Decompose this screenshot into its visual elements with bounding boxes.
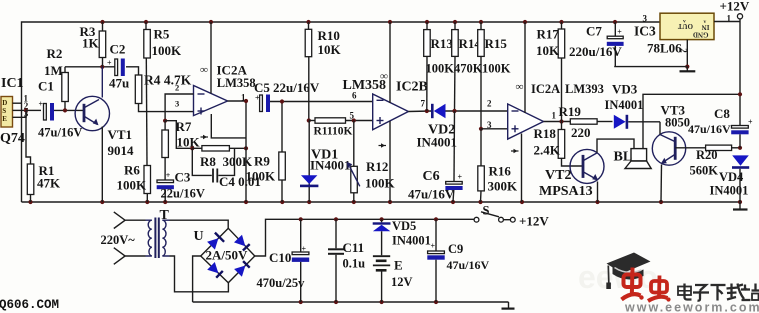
svg-text:47u/16V: 47u/16V (447, 258, 490, 272)
resistor R9 (281, 102, 283, 153)
resistor R17 (561, 22, 563, 29)
wire output trunk (228, 100, 246, 102)
transistor VT1 9014 (75, 96, 109, 130)
svg-text:220V~: 220V~ (101, 233, 136, 247)
capacitor C10 (300, 219, 302, 252)
wire pin4 gnd IC2B (389, 121, 391, 202)
resistor R10 (308, 22, 310, 29)
svg-text:47u: 47u (109, 76, 129, 91)
bridge rectifier U 2A/50V (201, 228, 255, 282)
svg-text:v: v (704, 19, 707, 25)
wire R10 trunk (308, 57, 310, 121)
svg-text:+12V: +12V (720, 0, 750, 14)
resistor R3 (102, 22, 104, 31)
wire collector node row (65, 66, 115, 68)
svg-text:LM358: LM358 (343, 78, 387, 93)
comparator U IC2A LM393 (508, 104, 544, 139)
svg-text:7: 7 (421, 99, 426, 109)
svg-text:+: + (431, 242, 436, 251)
svg-text:3: 3 (643, 14, 648, 24)
speaker BL (631, 149, 647, 161)
wire bridge negative to bottom rail (193, 256, 201, 302)
svg-text:220: 220 (571, 125, 591, 140)
svg-text:VT2: VT2 (545, 168, 571, 183)
switch S (474, 217, 479, 222)
IC1 pin 2 wire (13, 109, 27, 111)
diode VD4 IN4001 (732, 155, 749, 165)
wire R5 to R6 (145, 58, 148, 166)
node pin2 junction (24, 108, 28, 112)
resistor R13 (426, 22, 428, 30)
svg-text:10K: 10K (318, 42, 342, 57)
resistor R7 (164, 121, 166, 130)
resistor R16 (480, 129, 482, 166)
svg-text:VT1: VT1 (108, 127, 133, 142)
wire +12V right rail (739, 19, 741, 126)
svg-text:10K: 10K (177, 135, 201, 150)
wire bridge positive to DC rail (255, 219, 476, 256)
wire node to C1 (26, 109, 41, 111)
wire top 6V rail (22, 22, 661, 202)
node dots top rail (100, 20, 617, 24)
svg-text:22u/16V: 22u/16V (161, 187, 205, 201)
IC1 pin 3 wire (13, 110, 27, 117)
svg-text:IN4001: IN4001 (710, 184, 749, 198)
wire ground rail (22, 201, 741, 203)
svg-text:C8: C8 (714, 106, 730, 121)
transformer secondary coil (162, 220, 166, 256)
svg-text:S: S (2, 107, 6, 115)
IC1 sensor module Q74 (1, 97, 13, 128)
svg-text:IC2A: IC2A (531, 82, 560, 96)
svg-text:1K: 1K (82, 36, 100, 51)
svg-text:VD5: VD5 (392, 219, 416, 233)
transistor VT3 8050 (652, 132, 685, 165)
svg-text:+: + (39, 100, 44, 109)
node dots bottom rail (299, 300, 439, 304)
svg-text:IC2B: IC2B (396, 80, 428, 95)
chongchong red characters drawn (622, 268, 671, 302)
terminal +12V top (737, 14, 742, 19)
wire pin8 power (210, 22, 212, 94)
site name chinese drawn (678, 284, 759, 301)
svg-text:R15: R15 (485, 36, 508, 51)
svg-text:100K: 100K (246, 169, 277, 184)
wire IC3 gnd (686, 40, 688, 67)
pin4 mark (201, 136, 209, 138)
svg-text:2A/50V: 2A/50V (206, 247, 249, 262)
svg-text:R2: R2 (47, 46, 63, 61)
battery E 12V (373, 255, 390, 257)
resistor R11 (309, 120, 315, 122)
svg-text:R17: R17 (537, 27, 560, 42)
capacitor C6 (453, 111, 456, 182)
svg-text:Q74: Q74 (0, 131, 25, 146)
wire IC2B output (408, 110, 431, 113)
resistor R19 (570, 119, 597, 124)
svg-text:5: 5 (350, 111, 355, 121)
svg-text:IN4001: IN4001 (605, 98, 644, 112)
svg-text:VD4: VD4 (719, 170, 744, 184)
node dots ground rail (28, 200, 742, 204)
svg-text:470u/25v: 470u/25v (257, 276, 306, 290)
svg-text:R6: R6 (124, 163, 140, 178)
graduation cap (607, 253, 651, 274)
svg-text:1: 1 (241, 93, 246, 103)
transformer primary coil (148, 220, 152, 256)
svg-text:R19: R19 (559, 104, 582, 119)
svg-text:∞: ∞ (516, 81, 524, 93)
wire speaker/+12V node (643, 94, 740, 148)
svg-text:2: 2 (175, 83, 179, 93)
svg-text:78L06: 78L06 (647, 41, 682, 56)
wire IC3 in to +12V (714, 21, 740, 23)
bridge diode top-right (234, 235, 245, 246)
svg-text:GND: GND (693, 31, 709, 39)
svg-text:47u/16V: 47u/16V (688, 122, 731, 136)
resistor R20 (706, 145, 732, 150)
bridge diode bottom-right (234, 266, 245, 277)
svg-text:100K: 100K (365, 176, 396, 191)
ground symbol IC3 (686, 67, 688, 71)
resistor R4 (135, 75, 142, 104)
svg-text:12V: 12V (391, 275, 413, 289)
svg-text:300K: 300K (223, 154, 254, 169)
wire secondary top to bridge (170, 220, 229, 228)
svg-text:v: v (683, 19, 686, 25)
svg-text:R18: R18 (534, 126, 557, 141)
watermark logo eeworm (578, 253, 759, 313)
svg-text:C5: C5 (254, 80, 270, 95)
svg-text:560K: 560K (690, 164, 719, 178)
node dots DC rail (299, 217, 439, 221)
regulator IC3 78L06 (660, 13, 714, 39)
svg-text:8050: 8050 (665, 115, 690, 129)
svg-text:R4 4.7K: R4 4.7K (144, 73, 192, 88)
diode VD2 IN4001 (431, 104, 434, 118)
svg-text:R9: R9 (254, 154, 270, 169)
svg-text:VD3: VD3 (612, 82, 638, 97)
svg-text:+: + (458, 173, 463, 182)
svg-text:C1: C1 (38, 79, 54, 94)
svg-text:Q606.COM: Q606.COM (0, 298, 59, 312)
svg-text:E: E (394, 258, 403, 273)
svg-text:R5: R5 (154, 27, 170, 42)
svg-text:IN4001: IN4001 (417, 135, 457, 150)
svg-text:∞: ∞ (200, 64, 208, 76)
svg-text:10K: 10K (536, 43, 560, 58)
capacitor C11 (335, 219, 337, 248)
svg-text:9014: 9014 (108, 143, 135, 158)
capacitor C9 (435, 219, 437, 251)
svg-text:MPSA13: MPSA13 (539, 184, 593, 199)
resistor R18 (561, 122, 563, 130)
wire pin4 gnd (211, 114, 246, 138)
svg-text:C3: C3 (175, 170, 191, 185)
IC1 pin 1 wire (13, 102, 22, 104)
svg-text:100K: 100K (482, 62, 511, 76)
bridge diode top-left (207, 238, 218, 249)
svg-text:2: 2 (487, 99, 492, 109)
wire down to R1 (26, 110, 31, 164)
svg-text:22u/16V: 22u/16V (273, 80, 320, 95)
svg-text:U: U (194, 229, 204, 244)
svg-text:D: D (2, 99, 7, 107)
diode VD1 IN4001 (308, 121, 310, 203)
svg-text:1M: 1M (44, 63, 63, 78)
svg-text:IN4001: IN4001 (310, 158, 350, 173)
wire bottom rail (193, 301, 509, 303)
resistor R6 (144, 166, 151, 194)
capacitor C7 (614, 22, 616, 36)
svg-text:C9: C9 (448, 242, 463, 256)
svg-text:47u/16V: 47u/16V (408, 187, 455, 202)
diode VD3 IN4001 (614, 115, 626, 129)
svg-text:100K: 100K (117, 178, 148, 193)
resistor R15 (480, 22, 482, 30)
svg-text:R1110K: R1110K (314, 126, 353, 138)
svg-text:R8: R8 (200, 154, 216, 169)
svg-text:+12V: +12V (519, 214, 549, 229)
wire secondary bottom to bridge (170, 256, 229, 292)
svg-text:+: + (107, 59, 112, 68)
svg-text:0.1u: 0.1u (343, 257, 366, 271)
bridge diode bottom-left (207, 262, 218, 273)
svg-text:2.4K: 2.4K (534, 143, 561, 158)
svg-text:C10: C10 (269, 250, 291, 265)
svg-text:220u/16V: 220u/16V (569, 44, 622, 59)
svg-text:LM358: LM358 (217, 76, 256, 90)
resistor R8 (202, 146, 230, 151)
wire pin2 inverting (165, 94, 193, 121)
svg-text:IC3: IC3 (634, 24, 656, 39)
svg-text:www.eeworm.com: www.eeworm.com (624, 301, 759, 313)
ground symbol bottom (502, 308, 515, 310)
svg-text:IC1: IC1 (1, 76, 24, 91)
op-amp U IC2A LM358 (194, 86, 228, 116)
ground symbol right (739, 202, 741, 209)
resistor R2 (64, 67, 66, 111)
potentiometer R12 (352, 118, 356, 122)
diode VD5 IN4001 (381, 219, 383, 222)
resistor R1 (27, 164, 34, 195)
svg-text:470K: 470K (454, 62, 483, 76)
resistor R5 (145, 22, 147, 31)
svg-text:S: S (483, 204, 490, 218)
svg-text:C11: C11 (343, 240, 365, 255)
svg-text:100K: 100K (152, 43, 183, 58)
svg-text:6: 6 (352, 91, 357, 101)
svg-text:R13: R13 (431, 36, 454, 51)
svg-text:+: + (617, 28, 622, 37)
svg-text:R10: R10 (318, 28, 340, 43)
svg-text:E: E (2, 115, 7, 123)
svg-text:47K: 47K (37, 176, 61, 191)
svg-text:IN4001: IN4001 (392, 234, 431, 248)
svg-text:47u/16V: 47u/16V (38, 126, 82, 140)
svg-text:100K: 100K (426, 62, 455, 76)
wire pin4 gnd LM393 (521, 134, 523, 203)
wire feedback arm (165, 121, 192, 149)
svg-text:BL: BL (614, 150, 633, 165)
svg-text:+: + (166, 171, 171, 180)
AC input prongs 220V (114, 212, 125, 229)
svg-text:3: 3 (175, 99, 179, 109)
svg-text:C7: C7 (586, 24, 602, 39)
svg-text:R20: R20 (696, 148, 718, 162)
svg-text:3: 3 (487, 120, 492, 130)
svg-text:C6: C6 (423, 169, 440, 184)
wire pin3 LM393 (481, 128, 508, 130)
op-amp U IC2B LM358 (373, 94, 409, 130)
svg-text:LM393: LM393 (565, 82, 604, 96)
capacitor C4 (192, 148, 212, 175)
svg-text:C2: C2 (110, 42, 126, 57)
wire LM393 output (544, 121, 571, 123)
transistor VT2 MPSA13 (570, 149, 604, 183)
resistor R14 (454, 22, 456, 30)
svg-text:1: 1 (552, 111, 557, 121)
svg-text:R16: R16 (489, 164, 512, 179)
svg-text:300K: 300K (488, 179, 519, 194)
svg-text:R7: R7 (176, 119, 192, 134)
svg-text:R12: R12 (366, 159, 388, 174)
